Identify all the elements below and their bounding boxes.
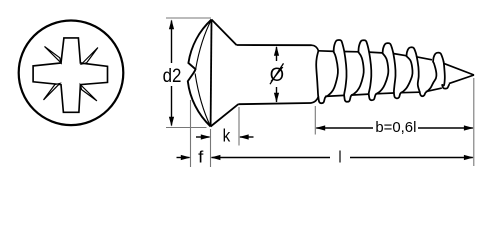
screw head top view: outer circle bbox=[19, 21, 124, 126]
tip cone upper edge bbox=[444, 63, 475, 75]
thread hook 4 and rising crest edge bbox=[394, 56, 413, 98]
label diameter slash extension bbox=[270, 63, 284, 84]
Pozidriv tick mark bottom-right bbox=[80, 85, 97, 101]
thread crest loop 1 bbox=[334, 40, 345, 52]
thread crest loop 3 bbox=[383, 43, 394, 53]
thread groove edge 3 bbox=[393, 53, 395, 92]
thread hook 1 and rising crest edge bbox=[318, 52, 338, 103]
svg-text:k: k bbox=[223, 126, 231, 146]
svg-text:Ø: Ø bbox=[270, 64, 284, 86]
extension line d2 bottom bbox=[166, 127, 207, 129]
svg-text:d2: d2 bbox=[163, 65, 182, 87]
svg-text:b=0,6l: b=0,6l bbox=[375, 119, 416, 136]
l arrow right bbox=[464, 155, 474, 160]
bottom root silhouette: shank rise bbox=[311, 97, 318, 103]
top root silhouette: shank dip bbox=[312, 45, 319, 51]
Pozidriv tick mark bottom-left bbox=[44, 83, 60, 100]
diameter arrow down bbox=[274, 93, 279, 103]
thread hook 3 and rising crest edge bbox=[369, 53, 389, 100]
thread groove edge 1 bbox=[344, 52, 346, 96]
tip cone lower edge bbox=[449, 75, 474, 84]
dimension d2 line bbox=[171, 21, 173, 64]
thread start edge bbox=[316, 51, 318, 97]
dimension f arrow left (outside) bbox=[177, 157, 190, 159]
l arrow left bbox=[211, 155, 221, 160]
thread hook 2 and rising crest edge bbox=[344, 52, 364, 102]
d2 arrow down bbox=[169, 117, 174, 127]
Pozidriv tick mark top-right bbox=[82, 48, 98, 65]
extension line k-right (cone/shank junction) bbox=[238, 107, 240, 146]
Pozidriv cross recess outline bbox=[33, 38, 107, 112]
shank bottom edge bbox=[238, 103, 311, 104]
head dome outline with recess notch bbox=[188, 20, 212, 127]
b arrow left bbox=[316, 125, 326, 130]
head cone lower edge bbox=[211, 104, 239, 126]
thread groove edge 2 bbox=[369, 52, 372, 94]
d2 arrow up bbox=[169, 20, 174, 30]
dimension b line bbox=[316, 127, 373, 129]
recess inner arc upper bbox=[196, 20, 212, 69]
Pozidriv tick mark top-left bbox=[45, 47, 62, 63]
top root segments bbox=[318, 50, 334, 53]
head rim line (d2 plane) bbox=[210, 20, 213, 127]
extension line head rim plane (k-left / f-right / l-left) bbox=[210, 129, 212, 167]
shank top edge bbox=[237, 44, 312, 46]
thread hook 6 bbox=[442, 85, 449, 89]
recess inner arc lower bbox=[195, 74, 211, 127]
svg-text:l: l bbox=[339, 147, 342, 166]
extension line b-left bbox=[314, 106, 316, 135]
dimension k arrows (outside) bbox=[196, 136, 210, 138]
thread crest loop 5 bbox=[433, 53, 444, 62]
b arrow right bbox=[464, 125, 474, 130]
extension line f-left (dome apex) bbox=[190, 100, 192, 167]
thread groove edge 5 bbox=[442, 62, 445, 86]
thread groove edge 4 bbox=[417, 56, 420, 92]
thread hook 5 and rising crest edge bbox=[420, 62, 437, 96]
extension line b/l-right (screw tip) bbox=[473, 78, 475, 166]
dimension l line bbox=[212, 157, 331, 159]
thread crest loop 2 bbox=[358, 40, 369, 52]
bottom root segments bbox=[325, 95, 344, 96]
head cone upper edge bbox=[212, 20, 237, 46]
extension line d2 top bbox=[166, 17, 211, 19]
thread crest loop 4 bbox=[407, 47, 417, 56]
svg-text:f: f bbox=[198, 149, 204, 167]
diameter arrow up bbox=[274, 46, 279, 56]
dimension diameter line bbox=[276, 47, 278, 61]
